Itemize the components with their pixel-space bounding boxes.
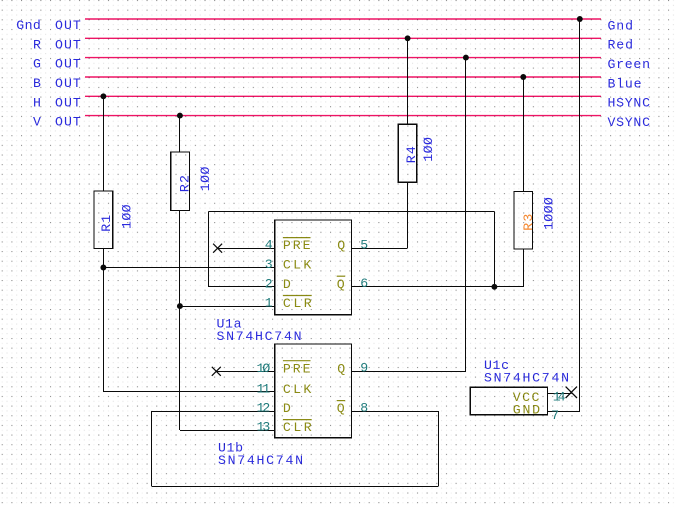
wire net Blue bus line [85, 76, 601, 78]
wire Red to R4 [407, 38, 409, 124]
junction Q6 feedback [491, 284, 497, 290]
junction R1 CLK3 [100, 265, 106, 271]
junction Green line [463, 55, 469, 61]
wire V to R2 [179, 116, 181, 152]
wire CLR1 U1a [180, 306, 275, 308]
wire CLK11 U1b [103, 391, 275, 393]
resistor R3 [514, 192, 533, 250]
wire Q9 output [352, 371, 466, 373]
junction H line to R1 [100, 93, 106, 99]
wire U1a feedback top [208, 211, 494, 213]
resistor R1 [94, 191, 113, 249]
wire Q8 output [352, 411, 439, 413]
wire R4 to Q5 corner [407, 182, 409, 248]
power block U1c body [470, 387, 547, 414]
no-connect X pin4 [213, 244, 222, 253]
resistor R2 [171, 152, 190, 211]
wire U1a feedback left vertical [208, 211, 210, 286]
wire VCC14 nc [548, 393, 572, 395]
wire net HSYNC bus line [85, 95, 601, 97]
junction Red line to R4 [405, 35, 411, 41]
resistor R4 [398, 124, 417, 182]
wire D2 U1a [208, 286, 275, 288]
wire U1b feedback right vertical [438, 411, 440, 486]
wire Green down [465, 58, 467, 372]
wire down to CLR13 [179, 306, 181, 430]
wire PRE10 nc [216, 371, 275, 373]
wire net Green bus line [85, 57, 601, 59]
wire net VSYNC bus line [85, 115, 601, 117]
wire CLK3 U1a [103, 267, 275, 269]
wire R1 to CLK junction [103, 249, 105, 268]
wire CLR13 U1b [180, 430, 275, 432]
junction Blue line to R3 [520, 74, 526, 80]
no-connect X pin10 [212, 367, 221, 376]
junction R2 CLR1 [177, 303, 183, 309]
wire R2 to CLR junction [179, 211, 181, 307]
wire Q5 output [352, 248, 408, 250]
wire Q6 output to R3 [352, 286, 524, 288]
wire down to CLK11 [103, 268, 105, 392]
wire Gnd down [579, 19, 581, 412]
wire H to R1 [103, 96, 105, 191]
flip-flop U1b body [275, 344, 352, 438]
junction Gnd line [577, 16, 583, 22]
wire Blue to R3 [523, 77, 525, 192]
wire R3 to Q6 wire [523, 249, 525, 287]
wire PRE4 nc [218, 248, 275, 250]
wire D12 U1b [152, 411, 275, 413]
wire U1a feedback right vertical [494, 211, 496, 286]
wire net Gnd bus line [85, 18, 601, 20]
wire GND7 U1c [548, 411, 580, 413]
wire U1b feedback left vertical [151, 411, 153, 486]
no-connect X pin14 [566, 387, 577, 398]
flip-flop U1a body [275, 220, 352, 315]
wire net Red bus line [85, 37, 601, 39]
wire U1b feedback bottom [152, 486, 438, 488]
junction V line to R2 [177, 113, 183, 119]
